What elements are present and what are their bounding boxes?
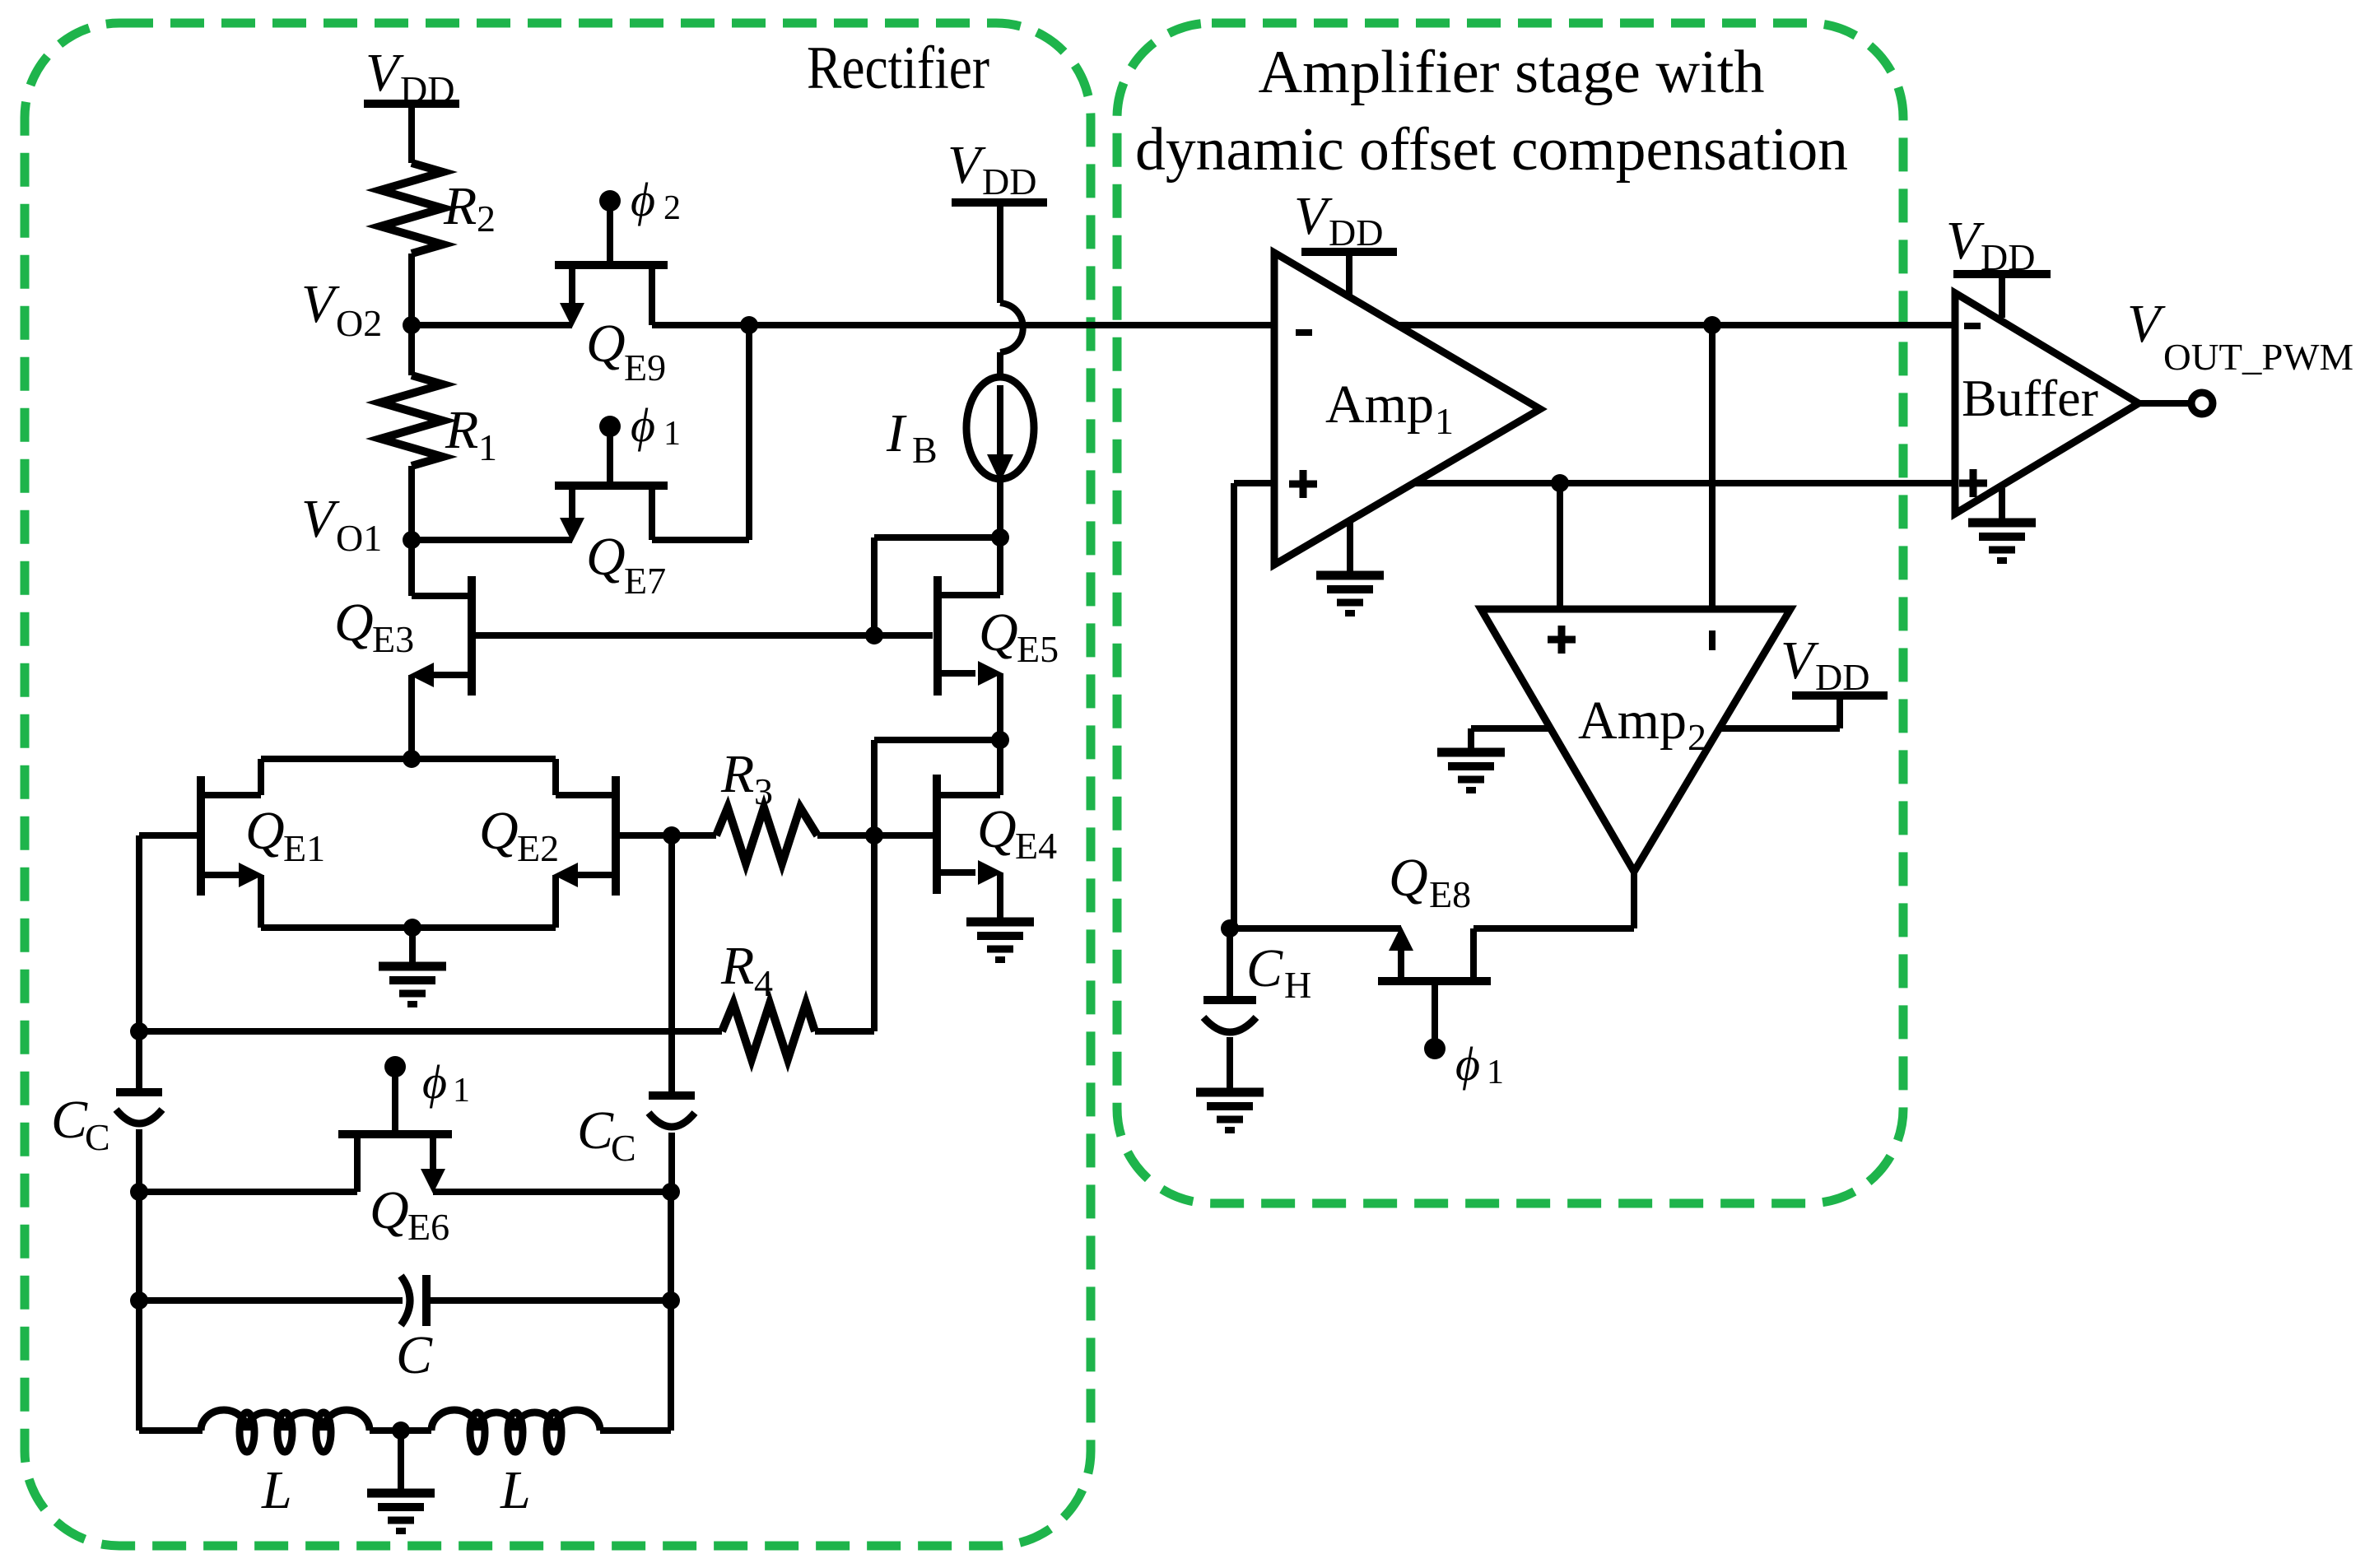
wire QE1 gate	[139, 832, 201, 839]
node CC right bottom	[662, 1183, 680, 1201]
output terminal VOUT_PWM	[2127, 294, 2353, 414]
wire IB node to gate column	[874, 534, 1000, 541]
node common source	[403, 919, 421, 937]
svg-text:Amp: Amp	[1325, 375, 1434, 435]
svg-text:DD: DD	[1329, 212, 1383, 254]
svg-text:1: 1	[663, 415, 681, 453]
svg-text:ϕ: ϕ	[631, 173, 655, 226]
svg-text:V: V	[947, 135, 986, 195]
svg-text:E7: E7	[624, 560, 666, 602]
wire VDD2 down with hop over minus line	[997, 202, 1003, 303]
svg-text:1: 1	[1487, 1054, 1504, 1091]
inductor L (right)	[431, 1410, 600, 1520]
resistor R1	[380, 325, 497, 540]
svg-text:C: C	[611, 1127, 636, 1169]
wire Amp2 output to QE8	[1631, 872, 1637, 928]
node CH	[1221, 919, 1239, 938]
op-amp Amp2 (inverted)	[1481, 609, 1790, 872]
node VO2	[301, 274, 421, 344]
transistor QE7 (switch, clock phi1)	[555, 398, 681, 602]
svg-text:V: V	[365, 43, 404, 103]
svg-text:O1: O1	[336, 517, 382, 559]
wire node X down to QE7	[746, 325, 752, 540]
ground (Buffer)	[1968, 488, 2036, 561]
transistor QE9 (switch, clock phi2)	[555, 173, 681, 389]
wire QE7 to node X column	[652, 537, 749, 543]
svg-text:Q: Q	[245, 801, 285, 861]
svg-text:2: 2	[1688, 716, 1706, 758]
node VO1	[301, 489, 421, 559]
wire to ground	[409, 928, 416, 966]
transistor QE4	[874, 740, 1057, 922]
svg-text:V: V	[1946, 211, 1985, 271]
transistor QE5	[865, 576, 1059, 696]
power VDD1 (top left supply)	[364, 43, 459, 163]
wire common drain rail	[261, 756, 556, 762]
svg-text:dynamic offset compensation: dynamic offset compensation	[1135, 116, 1848, 184]
capacitor CH	[1203, 928, 1311, 1092]
ground (Amp1)	[1316, 518, 1384, 613]
power VDD3 (Amp1 supply)	[1294, 186, 1397, 298]
Amplifier enclosure (green dashed rounded box)	[1117, 23, 1903, 1203]
transistor QE2	[479, 759, 616, 928]
capacitor CC (left)	[51, 1031, 162, 1192]
svg-text:Buffer: Buffer	[1962, 369, 2098, 427]
svg-text:O2: O2	[336, 302, 382, 344]
wire Amp1 minus-level line to Buffer	[1398, 322, 1955, 328]
svg-text:V: V	[1294, 186, 1333, 246]
svg-text:4: 4	[754, 962, 773, 1004]
svg-text:V: V	[1781, 630, 1819, 691]
wire R3 to QE4 gate node	[817, 832, 874, 839]
capacitor CC (right)	[577, 835, 695, 1192]
svg-text:H: H	[1284, 964, 1311, 1006]
svg-text:ϕ: ϕ	[422, 1055, 447, 1109]
wire tank bottom left	[136, 1300, 142, 1431]
svg-text:Q: Q	[479, 801, 519, 861]
current source IB	[886, 377, 1034, 537]
ground (diff pair)	[379, 966, 446, 1004]
transistor QE3	[334, 576, 472, 696]
capacitor C (tank)	[130, 1192, 680, 1385]
svg-text:1: 1	[453, 1072, 470, 1110]
wire VO2 to QE9	[412, 322, 572, 328]
wire VO1 to QE7	[412, 537, 572, 543]
svg-text:R: R	[445, 400, 478, 460]
svg-text:E5: E5	[1017, 628, 1059, 670]
op-amp Amp1	[1274, 253, 1540, 565]
svg-text:E9: E9	[624, 347, 666, 389]
svg-text:V: V	[2127, 294, 2166, 354]
ground (tank)	[367, 1493, 435, 1531]
wire QE9 to node X	[652, 322, 749, 328]
svg-text:E1: E1	[283, 827, 325, 869]
svg-text:ϕ: ϕ	[631, 398, 655, 452]
node CC left bottom	[130, 1183, 148, 1201]
svg-text:Q: Q	[1389, 848, 1428, 908]
wire QE2 gate	[616, 832, 672, 839]
svg-text:E8: E8	[1429, 873, 1471, 915]
svg-text:V: V	[301, 489, 340, 549]
wire QE8 to CH node	[1230, 925, 1401, 932]
wire QE3 gate line to QE5 gate node	[475, 632, 874, 639]
wire QE3 source down to diff pair	[408, 675, 415, 759]
svg-text:E2: E2	[517, 827, 559, 869]
svg-text:DD: DD	[1981, 236, 2035, 278]
svg-text:C: C	[85, 1116, 110, 1158]
svg-text:C: C	[577, 1100, 614, 1161]
ground (QE4)	[966, 922, 1034, 960]
wire long minus line to Amp1	[749, 322, 1274, 328]
buffer stage triangle	[1955, 293, 2139, 514]
svg-text:1: 1	[1435, 400, 1454, 442]
ground (Amp2 plus reference)	[1437, 728, 1550, 790]
svg-text:DD: DD	[982, 161, 1036, 202]
svg-text:L: L	[500, 1460, 531, 1520]
svg-text:I: I	[886, 403, 907, 463]
transistor QE6 (switch, clock phi1)	[338, 1055, 470, 1248]
power VDD5 (Buffer supply)	[1946, 211, 2051, 318]
svg-text:E3: E3	[372, 618, 414, 660]
svg-text:2: 2	[477, 198, 496, 240]
svg-text:E4: E4	[1015, 825, 1057, 867]
power VDD4 (Amp2 supply)	[1720, 630, 1888, 728]
node QE3-QE1-QE2	[403, 750, 421, 768]
node X junction	[740, 316, 758, 334]
svg-text:Amp: Amp	[1578, 691, 1687, 751]
wire VO1 down to QE3	[408, 540, 415, 596]
svg-text:Amplifier stage with: Amplifier stage with	[1259, 39, 1765, 106]
svg-text:E6: E6	[407, 1206, 449, 1248]
node QE5 source / QE4 drain	[991, 731, 1009, 749]
resistor R4	[720, 936, 815, 1059]
power VDD2 (middle supply)	[947, 135, 1047, 202]
svg-text:Q: Q	[370, 1180, 409, 1240]
wire QE5 drain/source column	[997, 537, 1003, 595]
svg-text:OUT_PWM: OUT_PWM	[2163, 336, 2353, 378]
wire common source rail	[261, 924, 556, 931]
transistor QE1	[201, 759, 325, 928]
svg-text:R: R	[720, 936, 754, 996]
svg-text:Q: Q	[979, 603, 1018, 663]
wire R2 to VO2	[408, 254, 415, 325]
svg-text:Q: Q	[586, 314, 626, 374]
wire Amp1 plus-level line to Buffer	[1413, 480, 1955, 486]
ground (CH)	[1196, 1092, 1264, 1130]
svg-text:C: C	[1246, 938, 1283, 998]
svg-text:Q: Q	[586, 527, 626, 587]
wire Amp1 plus input	[1234, 480, 1274, 486]
svg-text:Q: Q	[977, 799, 1017, 859]
svg-text:1: 1	[478, 426, 497, 468]
node IB bottom	[991, 528, 1009, 547]
svg-text:R: R	[443, 176, 477, 236]
resistor R3	[716, 744, 817, 863]
resistor R2	[380, 163, 496, 254]
svg-text:2: 2	[663, 189, 681, 227]
svg-text:Q: Q	[334, 593, 374, 653]
Rectifier enclosure (green dashed rounded box)	[25, 23, 1091, 1546]
svg-text:C: C	[396, 1325, 433, 1385]
wire centre tap to ground	[398, 1431, 404, 1493]
svg-text:R: R	[720, 744, 754, 804]
node inductor centre tap	[392, 1421, 410, 1440]
svg-text:DD: DD	[1815, 656, 1869, 698]
svg-text:DD: DD	[400, 68, 454, 110]
inductor L (left)	[201, 1410, 370, 1520]
svg-text:ϕ: ϕ	[1455, 1037, 1480, 1091]
node QE4 gate	[865, 826, 883, 844]
svg-text:3: 3	[754, 770, 773, 812]
svg-text:C: C	[51, 1090, 88, 1150]
transistor QE8 (switch, clock phi1)	[1378, 848, 1504, 1091]
svg-text:V: V	[301, 274, 340, 334]
svg-text:Rectifier: Rectifier	[807, 35, 989, 102]
svg-text:B: B	[912, 429, 938, 471]
node QE2 gate / R3	[663, 826, 681, 844]
wire gate node up and right to QE5 source column	[871, 740, 878, 1031]
svg-text:L: L	[261, 1460, 292, 1520]
wire long bottom line (QE1 gate to R4)	[130, 1022, 148, 1040]
